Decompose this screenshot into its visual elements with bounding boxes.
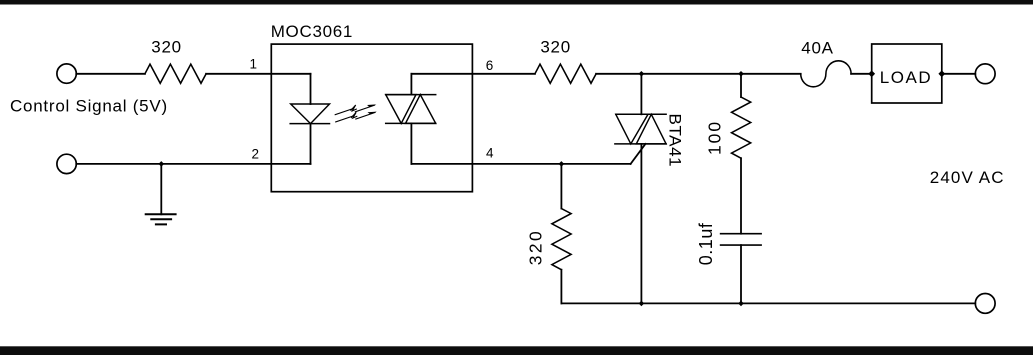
svg-text:MOC3061: MOC3061 <box>271 22 353 41</box>
resistor R1 320 (horizontal zigzag) <box>145 64 206 83</box>
svg-text:0.1uf: 0.1uf <box>696 222 716 265</box>
LED D1 anode lead <box>310 74 312 104</box>
wire: gate diagonal to triac Q1 <box>631 144 646 164</box>
wire: pin 4 net <box>411 163 630 165</box>
ground <box>146 214 176 224</box>
junction dot triac bottom <box>639 301 645 307</box>
svg-text:LOAD: LOAD <box>880 68 932 87</box>
fuse F1 <box>801 61 851 87</box>
svg-text:1: 1 <box>250 56 258 71</box>
wire: resistor R2 to fuse <box>596 73 801 75</box>
wire: pin 6 net to resistor R2 <box>411 73 535 75</box>
light arrow 1 <box>335 104 376 114</box>
svg-text:320: 320 <box>540 38 570 57</box>
terminal circle top-left <box>57 64 76 83</box>
terminal circle bottom-left <box>57 154 76 173</box>
svg-text:4: 4 <box>486 146 494 161</box>
junction dot LOAD right <box>938 70 945 77</box>
junction dot LOAD left <box>868 70 875 77</box>
resistor R3 100 top lead <box>740 74 742 97</box>
svg-text:100: 100 <box>705 120 725 155</box>
resistor R2 320 (horizontal zigzag) <box>535 64 596 83</box>
triac Q1 bottom bar <box>615 143 666 145</box>
wire: triac Q1 to bottom rail <box>640 144 642 304</box>
terminal circle top-right <box>975 64 995 84</box>
terminal circle bottom-right <box>975 294 995 314</box>
photo-triac up triangle <box>406 95 436 124</box>
capacitor C1 top plate <box>721 233 762 235</box>
wire: capacitor C1 to bottom rail <box>740 245 742 303</box>
photo-triac top bar <box>386 94 436 96</box>
wire: LOAD box to top-right terminal <box>942 73 976 75</box>
svg-text:40A: 40A <box>801 39 833 58</box>
triac Q1 up triangle <box>636 114 666 144</box>
photo-triac bottom lead <box>410 123 412 163</box>
junction dot capacitor bottom <box>738 301 744 307</box>
wire: resistor R4 to bottom rail <box>560 270 562 304</box>
LED D1 cathode lead <box>310 124 312 164</box>
junction dot ground tap <box>159 161 165 167</box>
svg-text:BTA41: BTA41 <box>666 114 685 168</box>
wire: resistor R3 to capacitor C1 <box>740 158 742 234</box>
svg-text:6: 6 <box>486 58 494 73</box>
LED D1 triangle <box>291 104 330 124</box>
resistor R4 320 top lead <box>560 164 562 209</box>
wire: triac Q1 top drop <box>640 74 642 115</box>
photo-triac bottom bar <box>386 122 436 124</box>
capacitor C1 bottom plate <box>721 244 762 246</box>
junction dot gate resistor tap <box>559 161 565 167</box>
resistor R4 320 (vertical zigzag) <box>552 209 571 270</box>
wire: bottom-left terminal to LED cathode (pin 2 net) <box>76 163 310 165</box>
resistor R3 100 (vertical zigzag) <box>732 97 751 158</box>
optocoupler U1 box <box>271 44 472 192</box>
wire: fuse to LOAD box <box>851 73 872 75</box>
LOAD box <box>872 44 942 103</box>
triac Q1 down triangle <box>616 114 648 144</box>
wire: resistor R1 to LED anode (pin 1 net) <box>206 73 310 75</box>
triac Q1 top bar <box>616 113 666 115</box>
junction dot triac drop <box>639 71 645 77</box>
bottom border bar <box>0 346 1033 355</box>
svg-text:Control Signal (5V): Control Signal (5V) <box>10 97 168 116</box>
bottom rail wire <box>561 302 975 304</box>
wire: ground drop <box>160 164 162 214</box>
photo-triac down triangle <box>386 95 416 124</box>
light arrow 2 <box>336 112 377 122</box>
svg-text:320: 320 <box>526 229 546 266</box>
LED D1 cathode bar <box>290 123 329 125</box>
svg-text:2: 2 <box>252 147 260 162</box>
junction dot snubber drop <box>738 71 744 77</box>
wire: top-left terminal to resistor R1 <box>76 73 145 75</box>
top border bar <box>0 0 1033 5</box>
photo-triac top lead <box>410 74 412 95</box>
svg-text:320: 320 <box>151 38 181 57</box>
svg-text:240V AC: 240V AC <box>930 168 1005 187</box>
